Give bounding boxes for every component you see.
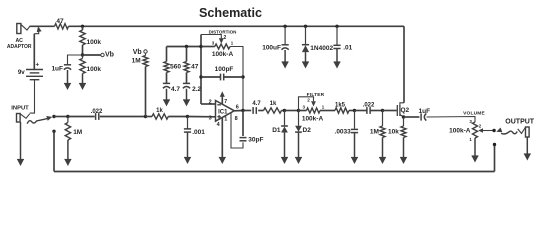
resistor 100k lower bbox=[80, 55, 85, 74]
switch contact output jack tip bbox=[496, 128, 517, 135]
svg-text:1uF: 1uF bbox=[51, 66, 63, 73]
wire 47 stub bbox=[186, 47, 188, 62]
ground 4.7 bbox=[163, 89, 170, 107]
switch contact AC/battery bbox=[34, 26, 41, 33]
svg-text:2: 2 bbox=[209, 100, 212, 106]
capacitor 1uF (Vb bypass) bbox=[64, 65, 71, 70]
capacitor 100pF bbox=[221, 74, 224, 81]
potentiometer FILTER 100k-A bbox=[307, 108, 321, 113]
terminal Vb bias bbox=[144, 50, 147, 53]
wire pin2 node top wire bbox=[167, 46, 202, 48]
svg-text:Vb: Vb bbox=[133, 49, 142, 56]
ground .001 bbox=[184, 132, 191, 164]
label + bbox=[35, 62, 39, 69]
ground D1 bbox=[281, 133, 288, 165]
resistor 560 bbox=[164, 62, 169, 73]
label FILTER bbox=[307, 92, 325, 98]
svg-text:1M: 1M bbox=[73, 129, 82, 136]
capacitor 2.2 bbox=[183, 83, 190, 88]
ground 100k lower bbox=[79, 74, 86, 91]
value label 560 bbox=[170, 64, 181, 71]
potentiometer DISTORTION 100k-A bbox=[215, 44, 230, 49]
svg-text:4.7: 4.7 bbox=[171, 86, 180, 93]
resistor 47 feedback bbox=[184, 62, 189, 73]
wire V+ rail segment jack to 47 bbox=[30, 25, 55, 27]
value label .001 bbox=[192, 129, 205, 136]
ground volume pot bbox=[472, 138, 479, 163]
pin label 3 bbox=[209, 116, 212, 122]
label D2 bbox=[303, 127, 312, 134]
ground 1M output bbox=[379, 138, 386, 165]
op-amp IC1 triangle bbox=[216, 101, 235, 122]
node Vb bias injection bbox=[144, 115, 147, 118]
label INPUT bbox=[11, 106, 29, 112]
wire 1uF to volume pot bbox=[427, 117, 476, 123]
terminal Vb bbox=[101, 53, 104, 56]
pin label 3 filter bbox=[303, 105, 306, 110]
wire filter pot left bbox=[299, 110, 307, 112]
pin 7 supply bbox=[220, 91, 225, 104]
value label 2.2 bbox=[192, 86, 201, 93]
wire .0033 to .022 bbox=[355, 110, 367, 112]
wire 1k5 to .0033 node bbox=[349, 110, 355, 112]
title Schematic bbox=[199, 6, 262, 20]
wire Vb node to 1uF bbox=[68, 55, 83, 65]
pin 4 ground stem bbox=[221, 118, 223, 157]
node output junction bbox=[241, 109, 244, 112]
svg-text:1uF: 1uF bbox=[419, 108, 431, 115]
wire bypass bottom bbox=[54, 171, 495, 173]
wire feedback left vertical bbox=[200, 35, 202, 105]
svg-text:8: 8 bbox=[235, 116, 238, 122]
svg-text:100k: 100k bbox=[87, 66, 102, 73]
pin label 3 volume bbox=[469, 119, 472, 124]
wire rail to 100k upper bbox=[82, 26, 84, 30]
svg-text:Q2: Q2 bbox=[401, 107, 410, 114]
transistor Q2 bbox=[397, 103, 404, 117]
value label 47 bbox=[56, 18, 64, 25]
ground IC1 pin 4 bbox=[219, 151, 226, 165]
value label 10k bbox=[388, 128, 399, 135]
wire V+ rail 47 to Q2 drain drop bbox=[69, 25, 405, 27]
value label 1k output bbox=[270, 101, 277, 107]
pin label 1 volume bbox=[469, 137, 472, 142]
ground 1N4002 bbox=[302, 52, 309, 68]
ground output jack bbox=[524, 137, 531, 161]
op-amp minus sign bbox=[217, 104, 221, 106]
svg-text:+: + bbox=[35, 62, 39, 69]
switch contact input jack tip bbox=[27, 116, 52, 124]
resistor 1M input bbox=[65, 117, 70, 141]
wire 47 to 2.2 bbox=[186, 73, 188, 84]
value label 100uF bbox=[262, 45, 281, 52]
ground 10k bbox=[400, 138, 407, 165]
wire op-amp output bbox=[234, 110, 243, 112]
node D1 junction bbox=[283, 109, 286, 112]
resistor 1M bias bbox=[143, 53, 148, 66]
wire input junction to 1M bbox=[54, 116, 68, 118]
value label 100k-A volume bbox=[449, 127, 471, 134]
svg-text:.001: .001 bbox=[192, 129, 205, 136]
pin label 2 bbox=[209, 100, 212, 106]
wire pin 2 connection bbox=[201, 103, 216, 105]
wire 4.7 to 1k bbox=[258, 110, 263, 112]
wire 560 to 4.7 bbox=[166, 73, 168, 84]
value label 1uF output bbox=[419, 108, 431, 115]
value label 1M bias bbox=[132, 57, 141, 64]
svg-text:1k5: 1k5 bbox=[335, 103, 346, 109]
capacitor .022 input bbox=[96, 113, 99, 120]
label VOLUME bbox=[463, 111, 485, 117]
svg-text:OUTPUT: OUTPUT bbox=[505, 119, 535, 126]
value label 1k5 bbox=[335, 103, 346, 109]
resistor 10k bbox=[401, 117, 406, 138]
svg-text:47: 47 bbox=[56, 18, 64, 25]
resistor 100k upper bbox=[80, 30, 85, 45]
svg-text:30pF: 30pF bbox=[248, 137, 263, 144]
node D2/filter junction bbox=[297, 109, 300, 112]
svg-text:6: 6 bbox=[236, 105, 239, 111]
wire filter wiper arm bbox=[299, 97, 316, 111]
resistor 47 (series supply) bbox=[55, 24, 69, 29]
svg-text:7: 7 bbox=[224, 99, 227, 105]
svg-text:100k-A: 100k-A bbox=[449, 127, 471, 134]
ground input jack bbox=[17, 122, 24, 166]
capacitor 4.7 bbox=[163, 83, 170, 88]
wire 560 stub bbox=[166, 47, 168, 62]
diode D2 bbox=[295, 111, 302, 133]
label Q2 bbox=[401, 107, 410, 114]
node junction 1N4002 tap bbox=[304, 25, 307, 28]
node feedback/pot-left junction bbox=[199, 45, 202, 48]
label ADAPTOR bbox=[7, 44, 32, 50]
resistor 1k5 bbox=[335, 108, 349, 113]
wire battery + riser bbox=[33, 34, 35, 70]
wire D1 to D2 node bbox=[285, 110, 299, 112]
wire battery - to input jack ring bbox=[30, 80, 35, 113]
node bypass input contact bbox=[52, 130, 55, 133]
svg-text:47: 47 bbox=[191, 64, 199, 71]
pin label 1 filter bbox=[322, 105, 325, 110]
value label 30pF bbox=[248, 137, 263, 144]
wire bypass input drop bbox=[53, 131, 55, 171]
ground .0033 bbox=[351, 133, 358, 164]
svg-text:100pF: 100pF bbox=[215, 66, 234, 73]
pin label 6 bbox=[236, 105, 239, 111]
svg-text:100k: 100k bbox=[87, 39, 102, 46]
wire 1M bias to signal line bbox=[145, 67, 147, 117]
node .0033 junction bbox=[353, 109, 356, 112]
node volume wiper junction bbox=[492, 129, 495, 132]
svg-text:560: 560 bbox=[170, 64, 181, 71]
wire to 1k bbox=[146, 116, 153, 118]
value label 4.7 output bbox=[252, 101, 261, 107]
wire Vb tap bbox=[83, 54, 101, 56]
node junction 100uF tap bbox=[283, 25, 286, 28]
wire 30pF to output node bbox=[242, 111, 244, 137]
value label 47 feedback bbox=[191, 64, 199, 71]
wire filter to 1k5 bbox=[320, 110, 335, 112]
wire 100pF right bbox=[224, 76, 243, 78]
diode 1N4002 bbox=[302, 26, 309, 52]
svg-text:2.2: 2.2 bbox=[192, 86, 201, 93]
svg-text:3: 3 bbox=[209, 116, 212, 122]
svg-text:10k: 10k bbox=[388, 128, 399, 135]
svg-text:1k: 1k bbox=[156, 108, 163, 114]
node 1M output junction bbox=[381, 109, 384, 112]
wire distortion wiper arm bbox=[201, 35, 224, 44]
label AC bbox=[15, 38, 23, 44]
wire Q2 source to 1uF bbox=[404, 116, 420, 118]
op-amp plus sign bbox=[217, 115, 221, 119]
wire 1k to D1 node bbox=[282, 110, 285, 112]
pin label 1 bbox=[224, 116, 227, 122]
node feedback/100pF-left junction bbox=[199, 75, 202, 78]
pin label 2 volume bbox=[479, 123, 482, 128]
svg-text:D1: D1 bbox=[272, 127, 281, 134]
capacitor .001 bbox=[184, 117, 191, 133]
pin label 2 filter bbox=[307, 97, 310, 102]
value label .01 bbox=[343, 45, 352, 52]
svg-text:.01: .01 bbox=[343, 45, 352, 52]
wire pin 1 stub bbox=[231, 113, 243, 148]
ground 1M input bbox=[64, 140, 71, 166]
node bypass output contact bbox=[493, 143, 496, 146]
svg-text:Schematic: Schematic bbox=[199, 6, 262, 20]
volume wiper bbox=[478, 128, 494, 133]
capacitor .0033 bbox=[351, 111, 358, 133]
pin label 8 bbox=[235, 116, 238, 122]
label 9v bbox=[18, 69, 25, 76]
wire to op-amp pin 3 bbox=[188, 116, 216, 118]
svg-text:1: 1 bbox=[224, 116, 227, 122]
AC adaptor jack bbox=[17, 24, 30, 34]
value label 4.7 bbox=[171, 86, 180, 93]
potentiometer VOLUME 100k-A bbox=[473, 122, 478, 138]
label Vb bbox=[105, 52, 114, 59]
value label .022 output bbox=[363, 103, 375, 109]
pin label 2 distortion wiper bbox=[224, 35, 227, 41]
svg-text:IC1: IC1 bbox=[218, 109, 228, 115]
node 47 top junction bbox=[185, 45, 188, 48]
svg-text:2: 2 bbox=[224, 35, 227, 41]
value label .022 input bbox=[91, 109, 103, 115]
value label 1N4002 bbox=[310, 45, 333, 52]
wire .022 to Vb column bbox=[100, 116, 146, 118]
value label 1M output bbox=[370, 128, 379, 135]
value label 100k upper bbox=[87, 39, 102, 46]
value label .0033 bbox=[335, 128, 352, 135]
svg-text:4.7: 4.7 bbox=[252, 101, 261, 107]
node junction 100k top bbox=[81, 25, 84, 28]
svg-text:Vb: Vb bbox=[105, 52, 114, 59]
svg-text:2: 2 bbox=[307, 97, 310, 102]
svg-text:1k: 1k bbox=[270, 101, 277, 107]
node Vb divider junction bbox=[81, 53, 84, 56]
value label 100k-A distortion bbox=[212, 51, 234, 58]
svg-text:D2: D2 bbox=[303, 127, 312, 134]
label OUTPUT bbox=[505, 119, 535, 126]
label Vb bias bbox=[133, 49, 142, 56]
wire 1M node to Q2 gate bbox=[383, 110, 397, 112]
pin label 3 distortion bbox=[212, 41, 215, 46]
svg-text:100k-A: 100k-A bbox=[212, 51, 234, 58]
label DISTORTION bbox=[209, 30, 237, 35]
capacitor 100uF supply bbox=[282, 26, 289, 49]
node 1M input top bbox=[66, 115, 69, 118]
battery 9v bbox=[26, 70, 43, 80]
capacitor 1uF output bbox=[421, 113, 426, 120]
wire pot left terminal bbox=[201, 46, 215, 48]
value label 100k-A filter bbox=[302, 115, 324, 122]
svg-text:1N4002: 1N4002 bbox=[310, 45, 333, 52]
wire pot right terminal bbox=[230, 47, 243, 111]
svg-text:VOLUME: VOLUME bbox=[463, 111, 485, 117]
svg-text:.022: .022 bbox=[363, 103, 375, 109]
wire output to 4.7 cap bbox=[243, 110, 251, 112]
capacitor .022 output bbox=[367, 107, 370, 114]
capacitor 30pF bbox=[240, 138, 247, 141]
svg-text:.0033: .0033 bbox=[335, 128, 352, 135]
svg-text:9v: 9v bbox=[18, 69, 25, 76]
value label 1uF bbox=[51, 66, 63, 73]
svg-text:100uF: 100uF bbox=[262, 45, 281, 52]
label IC1 bbox=[218, 109, 228, 115]
wire .022 to 1M node bbox=[370, 110, 382, 112]
resistor 1k input bbox=[152, 114, 168, 119]
ground 1uF bbox=[64, 70, 71, 90]
svg-text:INPUT: INPUT bbox=[11, 106, 29, 112]
ground D2 bbox=[295, 132, 302, 164]
wire 100pF left bbox=[201, 76, 220, 78]
pin label 1 distortion bbox=[231, 41, 234, 46]
output jack bbox=[518, 127, 529, 137]
resistor 1k output bbox=[264, 108, 282, 113]
value label 1M input bbox=[73, 129, 82, 136]
node junction .01 tap bbox=[335, 25, 338, 28]
pin label 4 bbox=[217, 122, 221, 128]
wire to .022 input cap bbox=[68, 116, 95, 118]
svg-text:ADAPTOR: ADAPTOR bbox=[7, 44, 32, 50]
wire 1k to .001 node bbox=[168, 116, 187, 118]
wire bypass output riser bbox=[494, 145, 496, 172]
node input signal junction bbox=[52, 115, 55, 118]
node .001 junction bbox=[186, 115, 189, 118]
capacitor 4.7 output bbox=[253, 107, 256, 114]
node Q2 source junction bbox=[402, 115, 405, 118]
capacitor .01 supply bbox=[333, 26, 340, 48]
value label 1k input bbox=[156, 108, 163, 114]
value label 100pF bbox=[215, 66, 234, 73]
value label 100k lower bbox=[87, 66, 102, 73]
label D1 bbox=[272, 127, 281, 134]
wire rail to Q2 drain bbox=[403, 26, 405, 103]
svg-text:.022: .022 bbox=[91, 109, 103, 115]
node 100pF right junction bbox=[241, 75, 244, 78]
pin label 7 bbox=[224, 99, 227, 105]
wire 100k to Vb node bbox=[82, 45, 84, 55]
svg-text:1M: 1M bbox=[132, 57, 141, 64]
diode D1 bbox=[281, 111, 288, 133]
svg-text:1M: 1M bbox=[370, 128, 379, 135]
input jack bbox=[17, 114, 30, 123]
svg-text:100k-A: 100k-A bbox=[302, 115, 324, 122]
ground 2.2 bbox=[183, 89, 190, 107]
ground 100uF bbox=[282, 50, 289, 69]
ground .01 bbox=[334, 49, 341, 69]
resistor 1M output bbox=[380, 111, 385, 138]
